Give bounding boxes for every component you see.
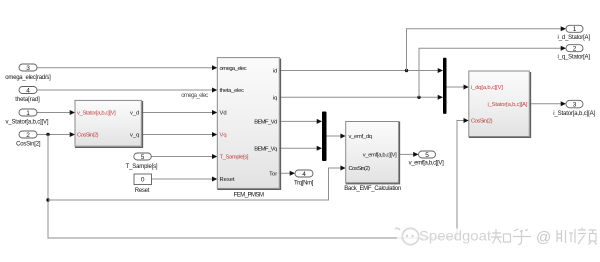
wire T_Sample to FEM	[151, 156, 212, 158]
inport 5 T_Sample	[134, 153, 152, 160]
outport 4 Trq[Nm]	[295, 170, 313, 177]
svg-text:T_Sample[s]: T_Sample[s]	[220, 155, 249, 161]
outport 2 i_q_Stator	[566, 45, 583, 52]
wire id branch to out1	[407, 29, 562, 71]
svg-text:BEMF_Vd: BEMF_Vd	[254, 120, 277, 126]
svg-text:Vd: Vd	[220, 111, 227, 117]
node CosSin lower junction	[46, 198, 49, 201]
svg-text:v_q: v_q	[130, 133, 139, 139]
svg-text:2: 2	[573, 46, 577, 53]
svg-text:@: @	[536, 229, 551, 246]
wire i_Stator to out3	[529, 103, 561, 105]
svg-text:2: 2	[26, 132, 30, 139]
svg-text:Back_EMF_Calculation: Back_EMF_Calculation	[344, 186, 401, 192]
svg-text:5: 5	[141, 154, 145, 161]
svg-text:omega_elec[rad/s]: omega_elec[rad/s]	[5, 75, 51, 81]
wire theta[rad] to FEM_PMSM	[36, 89, 213, 91]
wire block1 v_q to FEM Vq	[141, 134, 212, 136]
node iq branch junction	[417, 96, 420, 99]
wire omega_elec[rad/s] to FEM_PMSM	[36, 67, 213, 69]
svg-text:theta[rad]: theta[rad]	[15, 97, 40, 103]
svg-text:4: 4	[302, 171, 306, 178]
outport 3 i_Stator	[566, 100, 583, 108]
svg-text:Vq: Vq	[220, 133, 227, 139]
svg-text:CosSin(2): CosSin(2)	[471, 119, 493, 125]
wire FEM id to mux2	[279, 70, 438, 72]
svg-text:i_d_Stator[A]: i_d_Stator[A]	[558, 35, 591, 41]
node id branch junction	[405, 69, 408, 72]
subsystem FEM_PMSM	[218, 59, 281, 189]
subsystem i_Stator inverse transform	[469, 73, 530, 138]
watermark overlay	[397, 229, 600, 250]
svg-text:T_Sample[s]: T_Sample[s]	[126, 164, 158, 170]
svg-text:v_Stator[a,b,c][V]: v_Stator[a,b,c][V]	[77, 111, 116, 117]
svg-text:i_Stator[a,b,c][A]: i_Stator[a,b,c][A]	[553, 111, 595, 117]
wire mux1 to Back_EMF v_emf_dq	[327, 135, 342, 137]
svg-text:v_emf_dq: v_emf_dq	[349, 134, 373, 140]
svg-text:3: 3	[573, 101, 577, 108]
wire block1 v_d to FEM Vd	[141, 112, 212, 114]
svg-text:FEM_PMSM: FEM_PMSM	[234, 193, 264, 199]
svg-text:Speedgoat: Speedgoat	[419, 228, 491, 244]
wire FEM iq to mux2	[279, 96, 438, 98]
svg-text:v_emf[a,b,c][V]: v_emf[a,b,c][V]	[363, 153, 397, 159]
wire CosSin vertical trunk down	[48, 135, 457, 239]
svg-text:Trq[Nm]: Trq[Nm]	[294, 180, 314, 186]
inport 4 theta	[19, 87, 37, 94]
inport 3 omega_elec	[19, 64, 37, 71]
svg-text:id: id	[273, 69, 278, 75]
wire Back_EMF to v_emf outport	[399, 153, 414, 155]
mux1 BEMF dq	[322, 112, 327, 162]
svg-text:i_dq[a,b,c][V]: i_dq[a,b,c][V]	[471, 85, 503, 91]
svg-text:CosSin(2): CosSin(2)	[349, 166, 371, 172]
svg-text:CosSin(2): CosSin(2)	[77, 133, 99, 139]
svg-text:5: 5	[425, 152, 429, 159]
svg-text:v_d: v_d	[130, 111, 139, 117]
svg-text:i_q_Stator[A]: i_q_Stator[A]	[558, 55, 591, 61]
svg-text:theta_elec: theta_elec	[220, 88, 245, 94]
svg-text:1: 1	[26, 110, 30, 117]
svg-text:v_emf[a,b,c][V]: v_emf[a,b,c][V]	[409, 161, 444, 167]
subsystem Back_EMF_Calculation	[346, 122, 399, 184]
node CosSin branch junction	[46, 133, 49, 136]
inport 2 CosSin	[19, 131, 37, 138]
mux2 idq	[443, 58, 447, 114]
constant block Reset 0	[134, 174, 152, 185]
wire FEM BEMF_Vq to mux1	[279, 147, 317, 149]
svg-text:Reset: Reset	[220, 177, 236, 183]
wire CosSin to Back_EMF_Calculation	[48, 168, 341, 200]
svg-text:omega_elec: omega_elec	[181, 93, 208, 99]
wire CosSin up to i_Stator block	[457, 121, 464, 239]
svg-text:4: 4	[26, 87, 30, 94]
subsystem block1 v_Stator transform	[76, 102, 143, 148]
svg-text:0: 0	[141, 177, 145, 184]
svg-text:3: 3	[26, 65, 30, 72]
watermark zhihu handle	[491, 228, 597, 245]
watermark ghost icon	[395, 228, 419, 245]
outport 5 v_emf	[419, 151, 436, 158]
svg-text:CosSin[2]: CosSin[2]	[16, 142, 41, 148]
wire iq branch to out2	[419, 48, 561, 97]
wire v_Stator to block1	[36, 112, 70, 114]
outport 1 i_d_Stator	[566, 25, 583, 32]
svg-text:iq: iq	[273, 96, 278, 102]
svg-text:1: 1	[573, 26, 577, 33]
wire CosSin[2] to block1	[36, 134, 70, 136]
wire mux2 to i_dq input	[447, 86, 464, 88]
svg-text:omega_elec: omega_elec	[220, 66, 247, 72]
svg-text:v_Stator[a,b,c][V]: v_Stator[a,b,c][V]	[6, 120, 49, 126]
svg-text:Tor: Tor	[269, 172, 277, 178]
svg-text:BEMF_Vq: BEMF_Vq	[254, 146, 277, 152]
svg-text:Reset: Reset	[135, 188, 150, 194]
wire FEM BEMF_Vd to mux1	[279, 120, 317, 122]
svg-text:i_Stator[a,b,c][A]: i_Stator[a,b,c][A]	[488, 102, 528, 108]
wire Reset to FEM	[152, 178, 213, 180]
inport 1 v_Stator	[19, 109, 37, 116]
wire FEM Tor to Trq outport	[279, 172, 290, 174]
